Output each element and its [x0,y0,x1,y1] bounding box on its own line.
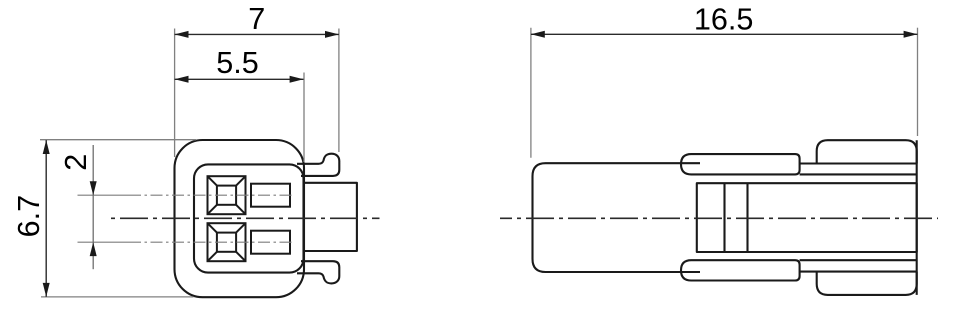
svg-text:2: 2 [59,154,93,171]
svg-text:6.7: 6.7 [12,195,46,238]
svg-text:16.5: 16.5 [694,3,754,37]
svg-text:7: 7 [248,2,265,36]
svg-text:5.5: 5.5 [216,46,259,80]
